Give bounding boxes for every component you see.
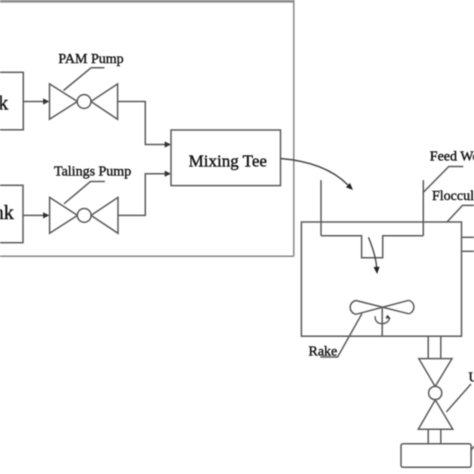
rake blade right end cap (409, 300, 414, 314)
valve V1 hub circle (429, 386, 442, 399)
wire pump P2 to mixing tee (118, 174, 166, 216)
valve V1 bottom cone (418, 400, 453, 429)
tank T2 (tailings tank) (0, 185, 23, 242)
flocculation tank vessel (301, 222, 461, 336)
svg-text:Talings Tank: Talings Tank (0, 202, 14, 224)
valve V1 top cone (419, 359, 452, 387)
leader bottom-right (clipped label) (471, 446, 474, 450)
rake rotation arrowhead (385, 315, 390, 319)
flow arrow into vessel (369, 237, 377, 268)
leader Feed Well (423, 167, 463, 193)
rake shaft (381, 308, 383, 337)
feed well left wall (320, 180, 322, 236)
wire tank T1 to pump P1 (23, 101, 44, 103)
svg-text:Underflow: Underflow (469, 370, 474, 385)
svg-text:Mixing Tee: Mixing Tee (189, 151, 267, 170)
overflow outlet stub upper line (462, 236, 474, 238)
feed well launder bottom with spout (321, 236, 423, 258)
wire tank T2 to pump P2 (23, 214, 44, 216)
wire mixing tee to feed well (curved arrow) (281, 159, 349, 186)
pump P1 left cone (50, 84, 78, 119)
system boundary top edge (0, 0, 294, 3)
pump P2 hub circle (77, 209, 91, 223)
tank T1 (PAM tank) (0, 72, 23, 130)
mixing tee box (171, 130, 281, 186)
leader PAM Pump (64, 68, 105, 91)
pump P1 right cone (91, 84, 118, 119)
svg-text:PAM Tank: PAM Tank (0, 93, 8, 115)
system boundary right edge (293, 0, 295, 256)
svg-text:Feed Well: Feed Well (430, 149, 474, 164)
svg-text:Flocculation Tank: Flocculation Tank (432, 189, 474, 204)
underflow pipe upper left line (427, 336, 429, 358)
svg-text:PAM Pump: PAM Pump (58, 52, 123, 67)
rake blade line 1 (356, 301, 409, 314)
underflow pipe lower left line (427, 429, 429, 443)
underflow collection box (401, 444, 471, 468)
rake blade left end cap (350, 301, 356, 315)
underflow pipe lower right line (440, 429, 442, 443)
leader Talings Pump (64, 182, 105, 204)
pump P1 hub circle (77, 95, 91, 109)
leader Flocculation Tank (447, 205, 474, 222)
svg-text:Talings Pump: Talings Pump (54, 165, 131, 180)
leader Rake (320, 314, 362, 357)
overflow outlet stub lower line (462, 250, 474, 252)
pump P2 left cone (50, 197, 78, 233)
leader Underflow (446, 384, 471, 412)
underflow pipe upper right line (440, 336, 442, 358)
system boundary bottom edge (0, 255, 294, 257)
rake rotation arc (375, 316, 389, 323)
wire pump P1 to mixing tee (118, 102, 166, 145)
feed well right wall (422, 180, 424, 236)
rake blade line 2 (356, 300, 409, 314)
pump P2 right cone (91, 197, 118, 233)
